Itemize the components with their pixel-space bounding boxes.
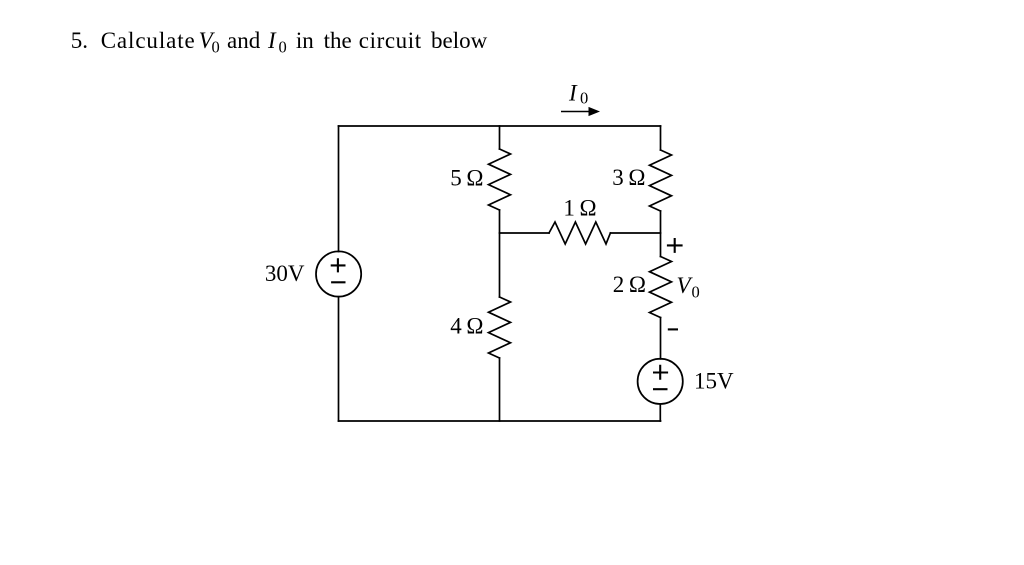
wire middle vertical bottom segment bbox=[499, 358, 501, 421]
wire bottom horizontal bbox=[339, 420, 661, 422]
wire left vertical lower bbox=[338, 297, 340, 421]
plus sign of V0 polarity bbox=[667, 238, 683, 253]
minus sign inside 30V source bbox=[331, 281, 345, 283]
svg-text:15V: 15V bbox=[694, 369, 734, 394]
wire middle horizontal left bbox=[500, 232, 550, 234]
resistor R3 3ohm bbox=[650, 150, 672, 211]
svg-text:Calculate: Calculate bbox=[101, 28, 196, 53]
svg-text:0: 0 bbox=[580, 89, 588, 108]
resistor R5 1ohm bbox=[549, 222, 610, 244]
resistor R1 5ohm bbox=[489, 149, 511, 210]
svg-text:5.: 5. bbox=[71, 28, 88, 53]
svg-text:2 Ω: 2 Ω bbox=[613, 272, 646, 297]
resistor R2 4ohm bbox=[489, 297, 511, 358]
wire right vertical below 15V source bbox=[659, 404, 661, 421]
resistor R4 2ohm bbox=[650, 257, 672, 318]
svg-text:0: 0 bbox=[212, 37, 220, 56]
svg-text:5 Ω: 5 Ω bbox=[450, 165, 483, 190]
wire right vertical between 3ohm and 2ohm bbox=[660, 211, 662, 257]
wire top horizontal bbox=[339, 125, 661, 127]
wire right vertical top stub bbox=[660, 126, 662, 150]
minus sign of V0 polarity bbox=[668, 328, 678, 330]
svg-text:the: the bbox=[324, 28, 352, 53]
svg-text:below: below bbox=[431, 28, 488, 53]
svg-text:3 Ω: 3 Ω bbox=[612, 165, 645, 190]
plus sign inside 15V source bbox=[653, 365, 668, 380]
svg-text:circuit: circuit bbox=[359, 28, 422, 53]
svg-text:I: I bbox=[267, 28, 277, 53]
plus sign inside 30V source bbox=[331, 258, 346, 272]
svg-text:1 Ω: 1 Ω bbox=[563, 196, 596, 221]
voltage source V1 30V circle bbox=[316, 251, 361, 296]
svg-text:0: 0 bbox=[692, 283, 700, 302]
svg-text:0: 0 bbox=[279, 37, 287, 56]
svg-text:4 Ω: 4 Ω bbox=[450, 313, 483, 338]
wire middle vertical center segment bbox=[499, 210, 501, 297]
wire middle vertical top stub bbox=[499, 126, 501, 149]
svg-text:I: I bbox=[568, 81, 578, 106]
voltage source V2 15V circle bbox=[638, 359, 683, 404]
svg-text:in: in bbox=[296, 28, 314, 53]
svg-text:30V: 30V bbox=[265, 261, 305, 286]
wire middle horizontal right bbox=[610, 232, 660, 234]
wire right vertical between 2ohm and 15V source bbox=[660, 318, 662, 359]
title problem statement bbox=[71, 28, 488, 57]
current arrow I0 bbox=[561, 107, 600, 116]
wire left vertical upper bbox=[338, 126, 340, 252]
label V0 across 2ohm bbox=[677, 273, 700, 302]
label I0 bbox=[568, 81, 588, 108]
svg-text:and: and bbox=[227, 28, 261, 53]
minus sign inside 15V source bbox=[653, 388, 668, 390]
